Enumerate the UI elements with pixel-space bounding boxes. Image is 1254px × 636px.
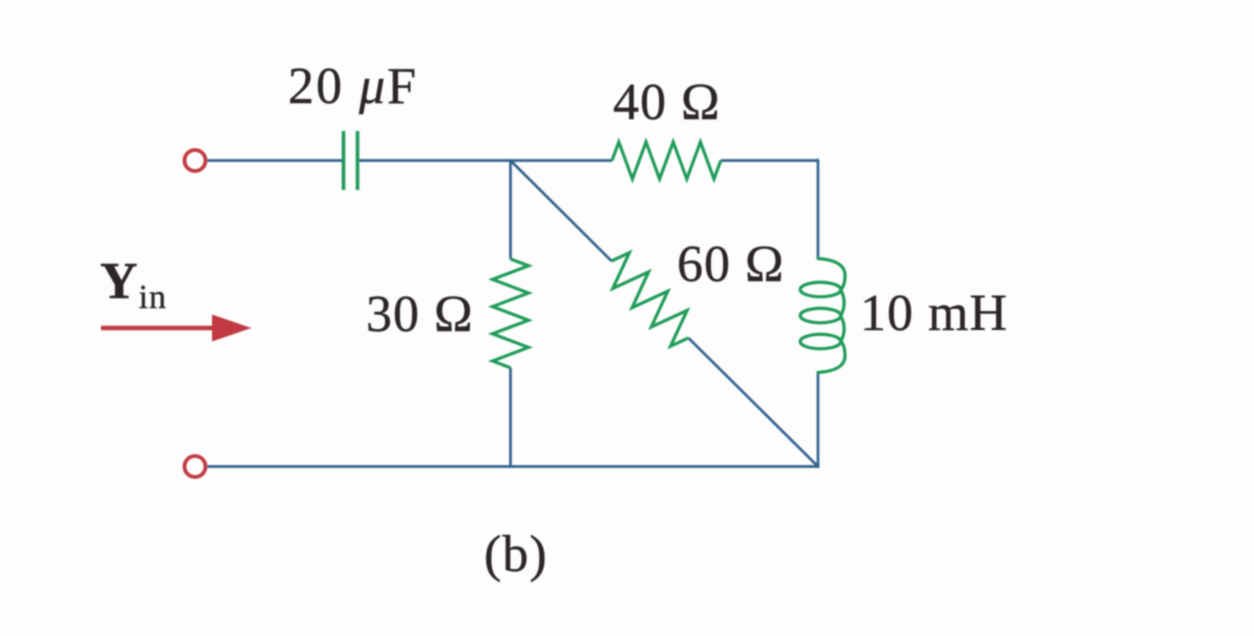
capacitor 20 uF plates xyxy=(342,131,346,190)
arrow: Yin input admittance direction xyxy=(101,326,219,331)
label: 30 ohm value xyxy=(366,288,474,343)
terminal: top-left input terminal xyxy=(185,150,206,171)
label: Yin xyxy=(100,255,167,310)
label: 10 mH value xyxy=(860,287,1008,342)
wire: 30-ohm resistor to bottom rail xyxy=(509,368,512,468)
wire: top-left terminal to capacitor xyxy=(208,159,345,162)
wire: top-right corner down to inductor xyxy=(817,159,818,259)
wire: inductor bottom to bottom-right corner xyxy=(817,372,820,468)
label: 40 ohm value xyxy=(613,76,721,131)
wire: bottom rail xyxy=(208,465,820,468)
wire: junction node A down to 30-ohm resistor xyxy=(509,159,512,259)
resistor 40 ohm xyxy=(612,142,721,179)
caption (b) xyxy=(484,528,548,583)
resistor 60 ohm xyxy=(612,253,689,347)
wire: capacitor to junction node A xyxy=(358,159,512,162)
wire: 40-ohm resistor to top-right corner xyxy=(721,159,818,162)
wire: 60-ohm resistor to bottom-right corner xyxy=(688,338,818,467)
wire: diagonal from node A to 60-ohm resistor xyxy=(511,161,612,262)
wire: junction node A to 40-ohm resistor xyxy=(511,159,613,162)
terminal: bottom-left input terminal xyxy=(185,456,206,477)
resistor 30 ohm xyxy=(493,259,529,368)
label: 60 ohm value xyxy=(677,238,785,293)
inductor 10 mH coil xyxy=(800,259,845,373)
label: 20 uF value xyxy=(288,60,418,115)
